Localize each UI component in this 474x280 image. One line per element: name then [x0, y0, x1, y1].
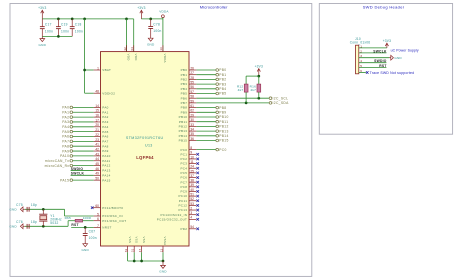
svg-text:PB5: PB5 — [181, 92, 188, 96]
svg-text:PC5: PC5 — [180, 171, 187, 175]
pin 53 PC12 — [178, 202, 196, 208]
svg-text:C78: C78 — [153, 22, 160, 26]
pin 22 PA6 — [94, 133, 109, 139]
svg-text:PA1: PA1 — [62, 110, 69, 114]
svg-text:PA15: PA15 — [102, 178, 110, 182]
svg-text:microCAN_Rx: microCAN_Rx — [45, 164, 70, 168]
hierarchical label PB0 — [196, 68, 226, 72]
wire PB7 to I2C_SDA — [196, 102, 269, 104]
power flag +3V3 (VDDA rail) — [137, 6, 145, 19]
svg-text:33: 33 — [190, 123, 194, 127]
pin 56 PB4 — [181, 85, 197, 91]
svg-text:R65: R65 — [65, 216, 71, 220]
no-connect PC2 — [196, 158, 199, 161]
hierarchical label PB9 — [196, 111, 226, 115]
connector J10 value Conn_01x06 — [350, 40, 371, 44]
svg-text:RST: RST — [71, 223, 78, 227]
no-connect PC15/OSC32_OUT — [196, 218, 199, 221]
hierarchical label I2C_SDA — [269, 101, 289, 105]
svg-text:PF1/OSC_OUT: PF1/OSC_OUT — [102, 219, 126, 223]
pin 5 of J10 — [359, 64, 387, 68]
svg-text:PB4: PB4 — [181, 87, 188, 91]
svg-text:PA10: PA10 — [60, 154, 69, 158]
svg-text:SWDIO: SWDIO — [71, 167, 84, 171]
svg-text:60: 60 — [95, 204, 99, 208]
local label RST (SWD) — [379, 64, 386, 68]
wire to PF0/OSC_IN — [65, 215, 94, 217]
svg-text:100n: 100n — [89, 236, 97, 240]
wire OSC_OUT jog up — [67, 221, 69, 227]
pin 2 PC13 — [178, 206, 196, 212]
pin 25 PC5 — [180, 169, 196, 175]
ground GND (C76) — [9, 224, 24, 229]
svg-text:C67: C67 — [89, 229, 96, 233]
svg-text:PC14/OSC32_IN: PC14/OSC32_IN — [160, 213, 187, 217]
svg-text:PF0/OSC_IN: PF0/OSC_IN — [102, 214, 123, 218]
pin 46 PA13 — [94, 167, 111, 173]
capacitor C18 — [70, 19, 83, 37]
svg-text:4: 4 — [190, 216, 192, 220]
wire PA13 — [71, 169, 94, 171]
svg-text:1: 1 — [97, 66, 99, 70]
svg-text:16: 16 — [95, 114, 99, 118]
svg-text:C17: C17 — [45, 23, 52, 27]
pin 44 PA11 — [94, 157, 111, 163]
svg-text:PC7: PC7 — [180, 180, 187, 184]
svg-text:PA2: PA2 — [62, 115, 69, 119]
svg-text:STM32F091RCT6U: STM32F091RCT6U — [126, 136, 164, 140]
svg-text:17: 17 — [95, 118, 99, 122]
svg-text:PB10: PB10 — [179, 115, 188, 119]
junction SCL/R16 — [257, 97, 260, 100]
svg-text:51: 51 — [190, 193, 194, 197]
svg-text:5: 5 — [97, 212, 99, 216]
pin 9 PC1 — [180, 151, 196, 157]
ground GND (C75) — [9, 207, 24, 212]
svg-text:25: 25 — [190, 169, 194, 173]
svg-text:C76: C76 — [16, 220, 23, 224]
svg-text:PA14: PA14 — [102, 173, 110, 177]
ground GND below MCU — [159, 261, 167, 274]
section box Microcontroller sheet area — [10, 4, 312, 277]
svg-text:PC8: PC8 — [180, 185, 187, 189]
svg-text:61: 61 — [190, 104, 194, 108]
junction rail/VDD drop — [125, 18, 128, 21]
svg-text:39: 39 — [190, 183, 194, 187]
footprint LQFP64 — [136, 155, 154, 160]
capacitor C75 — [16, 203, 37, 212]
pin 14 PA0 — [94, 104, 109, 110]
svg-text:PA5: PA5 — [62, 130, 69, 134]
svg-text:PB14: PB14 — [219, 134, 228, 138]
svg-text:I2C_SCL: I2C_SCL — [273, 96, 289, 100]
svg-text:microCAN_Tx: microCAN_Tx — [45, 159, 69, 163]
svg-text:PB12: PB12 — [219, 125, 228, 129]
svg-text:24: 24 — [190, 165, 194, 169]
no-connect PC1 — [196, 153, 199, 156]
wire to VDDIO2 pin — [85, 92, 94, 94]
resistor R16 — [250, 84, 261, 92]
capacitor C78 — [148, 19, 161, 36]
wire R12 bottom to SDA — [245, 92, 247, 103]
pin 5 PF0/OSC_IN — [94, 212, 123, 218]
hierarchical label I2C_SCL — [269, 96, 288, 100]
svg-text:10: 10 — [190, 155, 194, 159]
svg-text:PB13: PB13 — [219, 129, 228, 133]
no-connect PC14/OSC32_IN — [196, 213, 199, 216]
hierarchical label PB13 — [196, 129, 228, 133]
svg-text:PC15/OSC32_OUT: PC15/OSC32_OUT — [157, 217, 187, 221]
pin 15 PA1 — [94, 109, 109, 115]
connector J10 body — [356, 45, 359, 74]
svg-text:50: 50 — [95, 177, 99, 181]
local label SWDIO — [71, 167, 84, 171]
svg-text:VBAT: VBAT — [102, 68, 111, 72]
svg-text:18p: 18p — [31, 220, 37, 224]
pin 21 PA5 — [94, 128, 109, 134]
svg-text:6: 6 — [360, 69, 362, 73]
svg-text:59: 59 — [190, 99, 194, 103]
ground GND (C67) — [81, 242, 89, 252]
svg-text:PA8: PA8 — [62, 144, 69, 148]
svg-text:VDD: VDD — [134, 54, 138, 61]
hierarchical label PA15 — [60, 178, 94, 182]
pin 27 PB1 — [181, 71, 197, 77]
pin 32 VDD (top) — [123, 45, 131, 60]
junction +3V3/R16 — [257, 75, 260, 78]
svg-text:PB7: PB7 — [181, 101, 188, 105]
wire C75 rail — [25, 208, 65, 210]
svg-text:3: 3 — [190, 211, 192, 215]
pin 11 PC3 — [180, 160, 196, 166]
svg-text:4: 4 — [360, 59, 362, 63]
pin 48 VDDIO2 — [94, 90, 116, 96]
svg-text:PB2: PB2 — [219, 78, 226, 82]
junction crystal bottom — [42, 225, 45, 228]
svg-text:PA12: PA12 — [102, 164, 110, 168]
junction C19 bottom — [57, 35, 60, 38]
svg-text:13: 13 — [159, 47, 163, 51]
pin 6 of J10 — [359, 69, 366, 73]
pin 4 of J10 — [359, 59, 387, 63]
svg-text:PC3: PC3 — [180, 162, 187, 166]
svg-text:PB3: PB3 — [181, 82, 188, 86]
wire PB6 to I2C_SCL — [196, 97, 269, 99]
no-connect PC5 — [196, 172, 199, 175]
svg-text:27: 27 — [190, 71, 194, 75]
svg-text:uC Power Supply: uC Power Supply — [391, 48, 419, 52]
no-connect PC12 — [196, 204, 199, 207]
svg-text:PA8: PA8 — [102, 144, 108, 148]
junction VSS bus 3 — [162, 260, 165, 263]
wire VSSA drop — [162, 252, 164, 261]
svg-text:PA3: PA3 — [62, 120, 69, 124]
pin 16 PA2 — [94, 114, 109, 120]
hierarchical label PA5 — [62, 130, 93, 134]
pin 33 PB12 — [179, 123, 197, 129]
svg-text:63: 63 — [124, 249, 128, 253]
wire to R65 — [68, 220, 75, 222]
hierarchical label PB11 — [196, 120, 228, 124]
hierarchical label PB15 — [196, 139, 228, 143]
svg-text:PA7: PA7 — [62, 140, 69, 144]
svg-text:PA5: PA5 — [102, 130, 108, 134]
junction rail/C18 — [71, 18, 74, 21]
pin 45 PA12 — [94, 162, 111, 168]
pin 39 PC8 — [180, 183, 196, 189]
svg-text:100n: 100n — [45, 29, 53, 33]
no-connect PC11 — [196, 199, 199, 202]
hierarchical label microCAN_Tx — [45, 159, 94, 163]
pin 24 PC4 — [180, 165, 196, 171]
wire VDDA rail — [141, 18, 163, 20]
hierarchical label PA0 — [62, 106, 93, 110]
svg-text:PA15: PA15 — [60, 178, 69, 182]
svg-text:29: 29 — [190, 113, 194, 117]
svg-text:PC1: PC1 — [180, 152, 187, 156]
svg-text:GND: GND — [39, 43, 47, 47]
svg-text:PA2: PA2 — [102, 115, 108, 119]
microcontroller U13 body — [101, 52, 190, 246]
hierarchical label PA3 — [62, 120, 93, 124]
hierarchical label PB3 — [196, 82, 226, 86]
svg-text:PA0: PA0 — [102, 106, 108, 110]
junction VDDA rail/C78 — [149, 18, 152, 21]
pin 34 PB13 — [179, 128, 197, 134]
svg-text:32: 32 — [123, 47, 127, 51]
no-connect PC3 — [196, 162, 199, 165]
wire VDDA drop — [162, 18, 164, 52]
wire VSS drop 3 — [141, 252, 143, 261]
hierarchical label PA9 — [62, 149, 93, 153]
no-connect PD2 — [196, 228, 199, 231]
pin 3 PC14/OSC32_IN — [160, 211, 196, 217]
svg-text:GND: GND — [147, 42, 155, 46]
wire VSS drop 2 — [133, 252, 135, 261]
svg-text:11: 11 — [190, 160, 194, 164]
svg-text:PA4: PA4 — [102, 125, 108, 129]
svg-text:C75: C75 — [16, 203, 23, 207]
svg-text:Trace SWD Not supported: Trace SWD Not supported — [370, 71, 415, 75]
svg-text:VSS: VSS — [134, 237, 138, 244]
hierarchical label PB4 — [196, 87, 226, 91]
svg-text:PB1: PB1 — [219, 73, 226, 77]
svg-text:PB1: PB1 — [181, 73, 188, 77]
svg-text:PB0: PB0 — [219, 68, 226, 72]
wire capacitor bottoms — [42, 35, 72, 37]
resistor R12 — [237, 84, 248, 92]
svg-text:PC9: PC9 — [180, 190, 187, 194]
pin 23 PA7 — [94, 138, 109, 144]
svg-text:PB15: PB15 — [219, 139, 228, 143]
resistor R65 — [65, 216, 92, 222]
hierarchical label PB5 — [196, 92, 226, 96]
junction VSS bus 1 — [133, 260, 136, 263]
svg-text:PC2: PC2 — [180, 157, 187, 161]
wire C76 rail — [25, 225, 68, 227]
no-connect J10 pin 6 — [366, 71, 369, 74]
pin 59 PB7 — [181, 99, 197, 105]
pin 58 PB6 — [181, 95, 197, 101]
svg-text:45: 45 — [95, 162, 99, 166]
svg-text:5: 5 — [360, 64, 362, 68]
svg-text:PB0: PB0 — [181, 68, 188, 72]
svg-text:PC11: PC11 — [179, 199, 188, 203]
svg-text:VSS: VSS — [128, 237, 132, 244]
hierarchical label PA6 — [62, 135, 93, 139]
junction rail/C19 — [57, 18, 60, 21]
svg-text:PC4: PC4 — [180, 166, 187, 170]
pin 40 PC9 — [180, 188, 196, 194]
pin 29 PB10 — [179, 113, 197, 119]
svg-text:100n: 100n — [153, 29, 161, 33]
svg-text:PC13: PC13 — [178, 208, 187, 212]
svg-text:9: 9 — [190, 151, 192, 155]
local label RST — [71, 223, 78, 227]
pin 26 PB0 — [181, 66, 197, 72]
svg-text:7: 7 — [97, 224, 99, 228]
pin 52 PC11 — [179, 197, 197, 203]
pin 50 PA15 — [94, 177, 111, 183]
svg-text:C19: C19 — [61, 23, 68, 27]
capacitor C17 — [40, 19, 53, 37]
svg-text:57: 57 — [190, 90, 194, 94]
pin 62 PB9 — [181, 109, 197, 115]
svg-text:PA9: PA9 — [102, 149, 108, 153]
pin 20 PA4 — [94, 123, 109, 129]
pin 1 of J10 — [359, 44, 387, 48]
svg-text:34: 34 — [190, 128, 194, 132]
svg-text:36: 36 — [190, 137, 194, 141]
capacitor C19 — [56, 19, 69, 37]
capacitor C67 — [83, 227, 97, 241]
svg-text:1: 1 — [360, 44, 362, 48]
svg-text:100n: 100n — [61, 29, 69, 33]
ground GND below C17 — [39, 36, 47, 46]
local label SWCLK — [71, 172, 85, 176]
no-connect PC6 — [196, 176, 199, 179]
hierarchical label PA1 — [62, 110, 93, 114]
svg-text:18p: 18p — [31, 203, 37, 207]
svg-text:PD2: PD2 — [180, 227, 187, 231]
pin 17 PA3 — [94, 118, 109, 124]
svg-text:PB4: PB4 — [219, 87, 226, 91]
svg-text:52: 52 — [190, 197, 194, 201]
svg-text:Microcontroller: Microcontroller — [200, 5, 228, 10]
svg-text:53: 53 — [190, 202, 194, 206]
hierarchical label PB14 — [196, 134, 228, 138]
wire NRST — [71, 226, 93, 228]
junction crystal top — [42, 208, 45, 211]
svg-text:RST: RST — [379, 64, 386, 68]
svg-text:GND: GND — [9, 225, 17, 229]
pin 8 PC0 — [180, 146, 196, 152]
pin 47 VSS (bottom) — [138, 237, 146, 253]
svg-text:31: 31 — [131, 249, 135, 253]
svg-text:GND: GND — [159, 270, 167, 274]
svg-text:PB13: PB13 — [179, 129, 188, 133]
pin 6 PF1/OSC_OUT — [94, 217, 127, 223]
pin 1 VBAT — [94, 66, 112, 72]
svg-text:8: 8 — [190, 146, 192, 150]
pin 4 PC15/OSC32_OUT — [157, 216, 197, 222]
svg-text:SWDIO: SWDIO — [374, 59, 387, 63]
no-connect PC9 — [196, 190, 199, 193]
svg-text:42: 42 — [95, 147, 99, 151]
pin 3 of J10 — [359, 54, 389, 58]
wire VBAT/VDDIO2 drop — [84, 19, 86, 93]
svg-text:PB9: PB9 — [219, 111, 226, 115]
power flag +3V3 (SWD) — [383, 39, 391, 48]
pin 54 PD2 — [180, 225, 196, 231]
svg-text:PC10: PC10 — [178, 194, 187, 198]
svg-text:GND: GND — [81, 248, 89, 252]
power flag +3V3 (I2C pull-ups) — [255, 65, 263, 77]
svg-text:46: 46 — [95, 167, 99, 171]
svg-text:20: 20 — [95, 123, 99, 127]
hierarchical label PA2 — [62, 115, 93, 119]
wire VDD drop 1 — [126, 19, 128, 52]
svg-text:PB10: PB10 — [219, 115, 228, 119]
hierarchical label PA8 — [62, 144, 93, 148]
svg-text:PA1: PA1 — [102, 110, 108, 114]
svg-text:U13: U13 — [145, 144, 153, 148]
junction NRST/C67 — [84, 226, 87, 229]
junction VSS bus 2 — [140, 260, 143, 263]
wire R12 top drop — [245, 76, 247, 84]
wire VDD drop 2 — [133, 19, 135, 52]
pin 60 PF11/BOOT0 — [92, 204, 123, 210]
hierarchical label PB10 — [196, 115, 228, 119]
pin 37 PC6 — [180, 174, 196, 180]
svg-text:100n: 100n — [75, 29, 83, 33]
svg-text:VDDIO2: VDDIO2 — [102, 91, 115, 95]
svg-text:VSS: VSS — [142, 237, 146, 244]
svg-text:VDDA: VDDA — [163, 54, 167, 63]
pin 41 PA8 — [94, 143, 109, 149]
svg-text:PB12: PB12 — [179, 125, 188, 129]
pin 63 VSS (bottom) — [124, 237, 132, 253]
svg-text:48: 48 — [95, 90, 99, 94]
svg-text:I2C_SDA: I2C_SDA — [273, 101, 290, 105]
svg-text:37: 37 — [190, 174, 194, 178]
capacitor C76 — [16, 220, 37, 229]
wire to VBAT pin — [85, 69, 94, 71]
no-connect PC4 — [196, 167, 199, 170]
svg-text:44: 44 — [95, 157, 99, 161]
svg-text:PB8: PB8 — [219, 106, 226, 110]
svg-text:C18: C18 — [75, 23, 82, 27]
svg-text:SWCLK: SWCLK — [71, 172, 85, 176]
svg-text:VDD: VDD — [127, 54, 131, 61]
svg-text:PB11: PB11 — [219, 120, 228, 124]
svg-text:PF11/BOOT0: PF11/BOOT0 — [102, 206, 123, 210]
hierarchical label PA4 — [62, 125, 93, 129]
note uC Power Supply — [391, 48, 419, 52]
svg-text:2: 2 — [190, 206, 192, 210]
svg-text:23: 23 — [95, 138, 99, 142]
svg-text:PB2: PB2 — [181, 78, 188, 82]
svg-text:PB15: PB15 — [179, 139, 188, 143]
svg-text:PB3: PB3 — [219, 82, 226, 86]
svg-text:4k7: 4k7 — [238, 88, 244, 92]
pin 42 PA9 — [94, 147, 109, 153]
svg-text:PB8: PB8 — [181, 106, 188, 110]
svg-text:PB6: PB6 — [181, 96, 188, 100]
junction SDA/R12 — [245, 102, 248, 105]
sheet title SWD Debug Header — [363, 5, 405, 10]
wire R16 top drop — [258, 76, 260, 84]
